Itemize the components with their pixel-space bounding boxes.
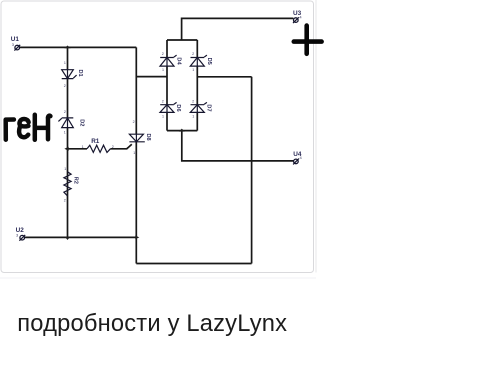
wire U1 to anode node: [19, 46, 136, 48]
wire bridge left column: [166, 40, 168, 131]
wire bridge top bar: [167, 39, 197, 41]
svg-text:1: 1: [64, 131, 66, 135]
wire U2 run: [24, 236, 136, 238]
svg-text:D4: D4: [176, 57, 182, 65]
wire bridge bottom stub and U4 run: [182, 131, 294, 161]
svg-text:1: 1: [82, 145, 84, 149]
junction at node A: [64, 46, 70, 49]
diode D5: [190, 52, 212, 72]
svg-text:2: 2: [162, 52, 164, 56]
svg-text:2: 2: [192, 52, 194, 56]
resistor R2: [64, 167, 79, 202]
wire bridge bottom bar: [167, 130, 197, 132]
wire bridge left AC: [136, 76, 167, 78]
svg-text:1: 1: [64, 167, 66, 171]
handwritten text gen: [6, 115, 51, 140]
resistor R1: [82, 138, 114, 152]
svg-text:D5: D5: [206, 58, 212, 65]
svg-text:2: 2: [162, 100, 164, 104]
svg-text:D7: D7: [206, 104, 212, 111]
diode D6: [160, 100, 181, 119]
svg-text:1: 1: [64, 61, 66, 65]
diode D7: [190, 100, 211, 119]
svg-text:D8: D8: [145, 134, 151, 141]
svg-text:D1: D1: [77, 70, 83, 77]
wire anode drop x136: [135, 47, 137, 263]
wire bridge right column: [196, 40, 198, 131]
svg-text:1: 1: [192, 68, 194, 72]
terminal U1: [11, 36, 20, 51]
svg-text:1: 1: [192, 115, 194, 119]
svg-text:2: 2: [64, 198, 66, 202]
svg-text:2: 2: [64, 110, 66, 114]
svg-text:1: 1: [162, 115, 164, 119]
svg-text:2: 2: [192, 100, 194, 104]
wire bridge top stub and U3 run: [182, 18, 294, 40]
junction at U2 node right: [135, 236, 139, 240]
svg-text:D2: D2: [78, 119, 84, 126]
svg-text:2: 2: [112, 145, 114, 149]
diode D2: [58, 110, 84, 134]
wire gate run R1 to D8: [68, 144, 132, 149]
svg-text:2: 2: [64, 84, 66, 88]
thyristor D8: [129, 120, 151, 155]
svg-text:подробности у LazyLynx: подробности у LazyLynx: [17, 311, 287, 337]
svg-text:1: 1: [162, 68, 164, 72]
terminal U3: [293, 10, 302, 23]
svg-text:R1: R1: [91, 138, 100, 145]
svg-text:R2: R2: [73, 177, 79, 184]
terminal U4: [293, 151, 302, 164]
diode D1: [62, 61, 83, 88]
wire bridge right AC: [197, 76, 251, 78]
wire bottom run: [136, 263, 251, 265]
wire clamp branch x67: [67, 47, 69, 237]
svg-text:D6: D6: [175, 104, 181, 111]
wire right riser x252: [251, 77, 253, 264]
handwritten plus symbol: [294, 26, 322, 54]
junction at bridge bottom: [179, 129, 185, 132]
junction at U2 node left: [65, 237, 70, 240]
junction at gate node: [64, 147, 68, 151]
diode D4: [160, 52, 182, 72]
svg-text:2: 2: [133, 120, 135, 124]
terminal U2: [16, 227, 26, 241]
svg-text:1: 1: [133, 151, 135, 155]
